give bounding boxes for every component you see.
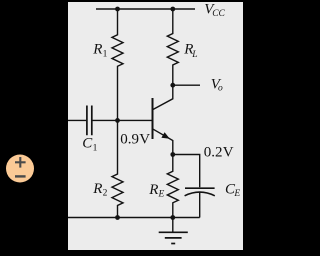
svg-text:E: E bbox=[233, 189, 240, 199]
svg-text:0.2: 0.2 bbox=[204, 145, 223, 161]
svg-text:CC: CC bbox=[212, 9, 225, 19]
svg-text:1: 1 bbox=[103, 50, 108, 60]
svg-text:1: 1 bbox=[93, 143, 98, 153]
svg-text:L: L bbox=[191, 50, 197, 60]
svg-text:o: o bbox=[218, 84, 223, 94]
svg-text:R: R bbox=[92, 42, 102, 58]
svg-text:R: R bbox=[148, 182, 158, 198]
svg-text:2: 2 bbox=[103, 189, 108, 199]
svg-text:V: V bbox=[223, 145, 234, 161]
svg-text:R: R bbox=[92, 181, 102, 197]
svg-text:V: V bbox=[139, 132, 150, 148]
svg-text:E: E bbox=[158, 190, 165, 200]
svg-text:0.9: 0.9 bbox=[120, 132, 139, 148]
